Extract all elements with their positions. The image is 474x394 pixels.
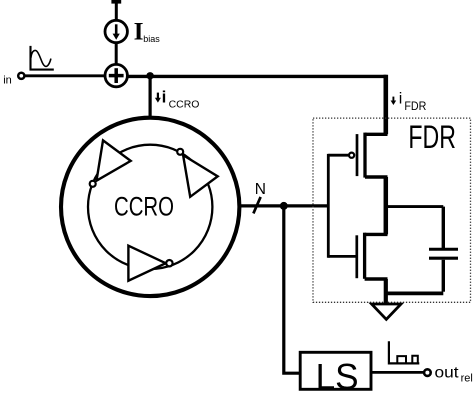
input terminal	[18, 73, 24, 79]
wire source to summer	[115, 43, 118, 65]
LS box	[300, 352, 371, 389]
bus slash	[253, 197, 260, 214]
wire junction to CCRO	[149, 76, 152, 117]
junction dot N	[280, 202, 288, 210]
svg-text:bias: bias	[143, 34, 160, 44]
svg-text:i: i	[162, 87, 167, 106]
label i_CCRO	[155, 87, 200, 110]
svg-text:CCRO: CCRO	[114, 191, 174, 221]
supply rail stub	[111, 2, 121, 21]
svg-text:CCRO: CCRO	[169, 100, 200, 111]
svg-text:N: N	[255, 181, 266, 198]
svg-text:FDR: FDR	[408, 119, 456, 155]
summing node	[105, 64, 127, 86]
CCRO outer circle	[61, 118, 239, 296]
top wire summer to FDR	[127, 75, 386, 78]
current source I1	[105, 20, 127, 42]
gate bus vertical	[327, 154, 330, 258]
ground	[372, 304, 401, 319]
drain mid vertical	[384, 177, 389, 234]
source bottom vertical	[384, 279, 388, 304]
wire down to FDR (right vertical)	[383, 75, 388, 135]
output pulse icon	[389, 341, 419, 363]
CCRO inner ring	[88, 145, 212, 269]
inverter A2 (top-right)	[177, 149, 218, 197]
label I_bias	[134, 17, 161, 46]
svg-text:FDR: FDR	[404, 101, 426, 113]
node N wire	[239, 204, 328, 207]
inverter A1 (top-left)	[90, 140, 131, 186]
svg-text:i: i	[399, 91, 403, 108]
inverter A3 (bottom)	[128, 246, 172, 281]
label i_FDR	[391, 91, 427, 113]
svg-text:in: in	[3, 74, 12, 86]
svg-text:out: out	[435, 364, 460, 381]
svg-text:rel: rel	[461, 373, 473, 385]
capacitor C1	[429, 249, 458, 258]
out terminal	[424, 369, 431, 376]
wire in to summer	[25, 74, 106, 77]
input waveform icon	[31, 46, 54, 70]
svg-text:I: I	[134, 17, 144, 46]
capacitor bottom wire	[442, 260, 445, 292]
wire N down to LS	[284, 206, 300, 373]
wire LS to out	[372, 371, 424, 374]
wire to capacitor (node link)	[388, 205, 443, 208]
FDR dashed box	[313, 118, 471, 302]
transistor M2 (NMOS)	[328, 233, 387, 279]
transistor M1 (PMOS)	[328, 133, 387, 178]
junction dot A	[146, 72, 153, 79]
svg-text:LS: LS	[316, 356, 359, 394]
